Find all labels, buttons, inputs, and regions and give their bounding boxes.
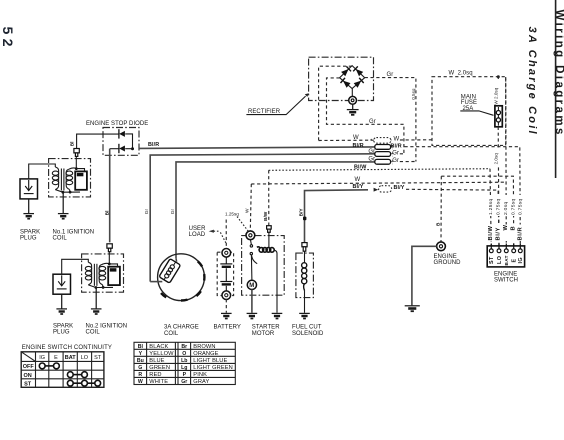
svg-text:1.25sq: 1.25sq [225, 212, 239, 217]
svg-text:PLUG: PLUG [20, 236, 37, 242]
svg-text:B/W: B/W [263, 211, 269, 221]
ground starter solenoid [272, 313, 283, 318]
connector arrow and dotted capsule Bl/Y [374, 186, 392, 192]
svg-text:Wiring Diagrams: Wiring Diagrams [553, 10, 564, 137]
svg-text:Gr: Gr [181, 379, 187, 385]
wire W column to starter ring [250, 184, 251, 231]
starter contact and blade [250, 240, 251, 245]
svg-text:O: O [182, 351, 186, 357]
svg-text:Bl/Y: Bl/Y [495, 227, 501, 240]
svg-text:COIL: COIL [86, 329, 101, 335]
svg-text:2.0sq: 2.0sq [503, 202, 509, 215]
coil primary winding [52, 167, 63, 192]
svg-text:R: R [138, 372, 142, 378]
svg-text:Gr: Gr [369, 119, 376, 125]
svg-text:Bl: Bl [104, 211, 110, 216]
wire Gr1 into coil [150, 281, 162, 283]
starter coil right wire [274, 250, 277, 313]
svg-text:W: W [138, 379, 143, 385]
igniter unit [75, 171, 87, 189]
battery [217, 220, 233, 319]
label W 2.0sq vertical above fuse [493, 79, 500, 105]
svg-text:BROWN: BROWN [193, 344, 215, 350]
fuel solenoid coil [304, 251, 306, 262]
svg-text:Gr: Gr [392, 158, 399, 164]
battery box [217, 252, 233, 295]
wire fuse column lower to LO [497, 127, 500, 246]
svg-text:B/Y: B/Y [299, 208, 305, 217]
ground under rectifier [347, 104, 359, 115]
wire B row engine ground to E [441, 176, 513, 245]
ground battery [221, 313, 232, 318]
spark plug box [20, 179, 38, 199]
junction dot stop diode [131, 147, 134, 150]
coil bottom bus [63, 191, 80, 193]
starter solenoid coil [268, 232, 270, 247]
wire Gr rectifier left vertex loop [327, 78, 404, 154]
svg-text:M: M [249, 283, 254, 289]
ignition system No.1 (spark plug + coil) [20, 149, 91, 219]
bridge diode D1 top-left [341, 66, 351, 76]
svg-text:Bl/Y: Bl/Y [394, 185, 405, 191]
wire fuse column upper [497, 77, 499, 106]
wire Gr1 solid row [150, 154, 375, 282]
wire W rectifier top harness (dashed) [319, 66, 352, 140]
svg-text:BLUE: BLUE [149, 358, 164, 364]
svg-text:Br: Br [181, 344, 187, 350]
svg-text:52: 52 [0, 27, 15, 51]
rectifier ground ring terminal [349, 96, 357, 104]
svg-text:ENGINE STOP DIODE: ENGINE STOP DIODE [86, 121, 148, 127]
svg-text:W 2.0sq: W 2.0sq [494, 87, 499, 104]
stop diode bottom D6 [119, 144, 125, 153]
svg-text:Gr: Gr [170, 208, 176, 214]
svg-text:LOAD: LOAD [189, 232, 206, 238]
wire battery to ground [225, 299, 227, 313]
svg-text:ST: ST [94, 355, 102, 361]
battery cells [220, 257, 232, 291]
wire color code table [134, 342, 235, 385]
wire plug to coil [29, 164, 56, 179]
svg-text:RED: RED [149, 372, 161, 378]
wire W harness row [319, 139, 432, 142]
harness dashed box with W 2.0sq top [432, 77, 506, 146]
svg-text:BATTERY: BATTERY [214, 325, 241, 331]
connector W dotted capsule [371, 138, 391, 144]
coil secondary winding [66, 168, 76, 192]
starter B/W bolt terminal [267, 226, 272, 233]
charge coil core (tilted) [159, 259, 181, 284]
bridge diode D2 top-right [353, 66, 363, 76]
svg-text:1.25sq: 1.25sq [488, 199, 494, 215]
fuel solenoid bolt [302, 243, 307, 252]
wire engine ground to ground [412, 246, 437, 305]
wire D5 anode to junction [125, 134, 132, 149]
svg-text:IG: IG [518, 257, 524, 264]
svg-text:W: W [503, 224, 509, 230]
wire cap to coil junction [75, 156, 77, 168]
svg-text:Bl/W: Bl/W [354, 165, 367, 171]
fuel cut solenoid [296, 243, 314, 319]
ground under spark plug [23, 199, 34, 219]
wire Gr2 dashed stub [400, 161, 416, 163]
wire Gr2 solid row [176, 162, 375, 258]
svg-text:COIL: COIL [53, 236, 68, 242]
svg-text:0.75sq: 0.75sq [518, 199, 524, 215]
svg-text:Lb: Lb [181, 358, 187, 364]
wire bridge bottom to ground ring [351, 89, 353, 97]
bridge diode D4 bottom-right [354, 78, 364, 88]
wire Bl/W column to starter bolt [268, 170, 270, 225]
svg-text:P: P [183, 372, 187, 378]
starter motor M [247, 280, 256, 289]
wire motor to ground [251, 290, 253, 313]
wire contact to motor [250, 255, 253, 280]
svg-text:MOTOR: MOTOR [252, 331, 275, 337]
svg-text:ORANGE: ORANGE [193, 351, 218, 357]
svg-text:B: B [435, 222, 441, 226]
connector tails [391, 146, 394, 164]
svg-text:PLUG: PLUG [53, 329, 70, 335]
svg-text:BAT: BAT [65, 355, 77, 361]
svg-text:ENGINE SWITCH CONTINUITY: ENGINE SWITCH CONTINUITY [22, 345, 112, 351]
engine switch column labels [487, 195, 524, 241]
starter B+ ring terminal [246, 231, 255, 240]
svg-text:LIGHT GREEN: LIGHT GREEN [193, 365, 233, 371]
wire W row battery/starter to BAT [251, 182, 505, 184]
svg-text:Bl/R: Bl/R [518, 226, 524, 240]
svg-text:Y: Y [139, 351, 143, 357]
svg-text:B: B [510, 226, 516, 231]
label 2.0sq below fuse [493, 149, 500, 167]
junction dot fuse branch [497, 75, 500, 78]
connector capsule Gr1 [375, 152, 391, 157]
svg-text:ST: ST [489, 256, 495, 264]
svg-text:LIGHT BLUE: LIGHT BLUE [193, 358, 227, 364]
label W row right [393, 136, 400, 142]
svg-text:Lg: Lg [181, 365, 187, 371]
ground starter motor [247, 313, 258, 318]
wire BAT column [505, 77, 508, 246]
svg-text:W: W [355, 177, 361, 183]
svg-text:W 2.0sq: W 2.0sq [449, 70, 473, 76]
wire B column to engine ground [440, 176, 442, 241]
svg-text:STARTER: STARTER [252, 325, 280, 331]
wire solenoid to ground [304, 291, 306, 313]
starter motor [242, 226, 285, 319]
ignition system No.2 (copy translated) [53, 244, 124, 314]
wire Bl/R dashed row to IG [405, 147, 521, 246]
svg-text:GREEN: GREEN [149, 365, 170, 371]
coil core [60, 169, 62, 191]
svg-text:GRAY: GRAY [193, 379, 209, 385]
svg-text:Gr: Gr [144, 208, 150, 214]
battery + ring [222, 249, 231, 258]
main fuse 25A [495, 106, 502, 127]
svg-text:GROUND: GROUND [434, 260, 462, 266]
svg-text:LO: LO [497, 256, 503, 264]
rectifier unit box [309, 57, 374, 100]
label MAIN FUSE 25A with pointer [460, 95, 493, 116]
wire Bl/Y solid from fuel cut [305, 190, 369, 243]
svg-text:E: E [512, 259, 518, 263]
svg-text:0.75sq: 0.75sq [495, 199, 501, 215]
svg-text:Bu: Bu [137, 358, 144, 364]
connector capsule Gr2 [375, 159, 391, 164]
svg-text:Bl/W: Bl/W [488, 225, 494, 240]
3A charge coil flywheel [150, 254, 204, 301]
svg-text:Bl: Bl [138, 344, 144, 350]
wire Bl/Y dashed row to LO [406, 189, 499, 245]
continuity circles [39, 363, 100, 386]
wire Gr1 dashed stub [400, 153, 404, 155]
svg-text:SOLENOID: SOLENOID [292, 331, 324, 337]
svg-text:Bl/R: Bl/R [148, 142, 159, 148]
wire D6 anode to junction [125, 148, 132, 150]
svg-text:ON: ON [23, 373, 31, 379]
svg-text:3A CHARGE: 3A CHARGE [164, 325, 199, 331]
svg-text:2.0sq: 2.0sq [494, 153, 499, 165]
svg-text:LO: LO [81, 355, 89, 361]
engine ground ring terminal [437, 242, 446, 251]
svg-text:E: E [54, 355, 58, 361]
label USER LOAD with arrow [189, 226, 227, 244]
svg-text:Bl: Bl [69, 141, 75, 146]
engine switch terminals [489, 244, 524, 266]
svg-text:Bl/R: Bl/R [353, 143, 364, 149]
ground engine [405, 306, 420, 311]
svg-text:W: W [353, 135, 359, 141]
ground fuel solenoid [299, 313, 310, 318]
wire Gr2 into coil [175, 258, 178, 262]
ground under coil [58, 192, 69, 219]
bridge diode D3 bottom-left [341, 78, 351, 88]
svg-text:BAT: BAT [504, 255, 509, 265]
svg-text:COIL: COIL [164, 331, 179, 337]
battery - ring [222, 291, 231, 300]
wire D6 cathode to Bl column [110, 148, 119, 150]
ignition coil box [49, 159, 91, 197]
label 1.25sq with pointer [225, 212, 248, 232]
junction dots coil bottom [62, 191, 65, 194]
svg-text:YELLOW: YELLOW [149, 351, 174, 357]
engine stop diode box [103, 128, 139, 156]
rectifier label [246, 93, 308, 115]
connector capsule Bl/R [375, 145, 391, 150]
stop diode top D5 [119, 129, 125, 138]
svg-text:0.75sq: 0.75sq [510, 199, 516, 215]
svg-text:IG: IG [39, 355, 45, 361]
engine switch continuity table [21, 345, 112, 388]
svg-text:Gr: Gr [387, 72, 394, 78]
svg-text:Gr: Gr [392, 150, 399, 156]
starter box [242, 236, 285, 296]
svg-text:SWITCH: SWITCH [494, 278, 518, 284]
sidebar rule [555, 0, 557, 178]
spark plug gap symbol [24, 180, 34, 194]
battery W stub wire [225, 220, 227, 249]
svg-text:PINK: PINK [193, 372, 207, 378]
flywheel rim ticks [161, 261, 204, 300]
svg-text:OFF: OFF [23, 364, 35, 370]
plug cap resistor [74, 149, 79, 157]
wire Bl/W row to ST [269, 169, 490, 171]
svg-text:BLACK: BLACK [149, 344, 168, 350]
svg-text:W: W [394, 137, 400, 143]
wire D5 cathode to No.1 coil cap [77, 134, 119, 148]
svg-text:FUEL CUT: FUEL CUT [292, 325, 322, 331]
wire Bl column stop diode to No.2 coil [109, 149, 111, 243]
svg-text:WHITE: WHITE [149, 379, 168, 385]
wire Gr rectifier right vertex to column [365, 78, 416, 162]
svg-text:W: W [244, 208, 250, 213]
fuel solenoid box [296, 253, 314, 298]
wire Bl/R solid row [139, 147, 375, 149]
engine switch box [487, 246, 524, 267]
svg-text:ST: ST [24, 381, 32, 387]
svg-text:G: G [138, 365, 142, 371]
svg-text:3A Charge Coil: 3A Charge Coil [526, 27, 538, 136]
rectifier bridge diamond [340, 66, 365, 89]
svg-text:0.5sq: 0.5sq [411, 88, 416, 100]
bullet connector on fuel wire [303, 217, 306, 221]
